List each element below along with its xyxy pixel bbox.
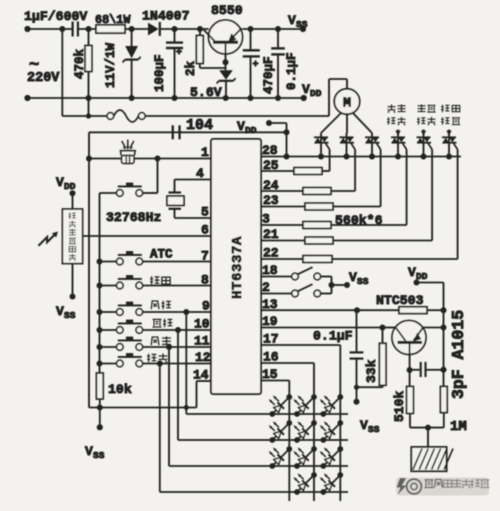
svg-text:510k: 510k	[392, 391, 407, 422]
wire from reset button up to pin1	[157, 159, 159, 194]
svg-text:8550: 8550	[211, 3, 243, 18]
label 辅助输出	[441, 105, 449, 113]
svg-text:10k: 10k	[108, 382, 132, 397]
wire gate of T2	[354, 150, 356, 192]
resistor 470k	[88, 29, 90, 46]
wire LED row3 riser	[168, 347, 170, 466]
wire pin 2 to switch	[261, 293, 292, 295]
switch S18	[292, 273, 299, 280]
wire LED row1 riser	[185, 312, 187, 414]
watermark	[396, 478, 489, 496]
capacitor 104	[172, 125, 174, 139]
svg-text:HT6337A: HT6337A	[230, 236, 246, 299]
IC U1 HT6337A body	[211, 139, 261, 394]
label 风速	[151, 301, 159, 309]
button aux	[100, 285, 117, 287]
wire 470k bottom to fuse line	[88, 98, 90, 116]
svg-text:SS: SS	[296, 19, 308, 30]
svg-text:560k*6: 560k*6	[335, 213, 383, 228]
wire VDD right feed	[417, 282, 444, 284]
node: AC input top terminal	[24, 26, 30, 32]
thermistor NTC503	[357, 309, 399, 311]
left button rail	[99, 193, 101, 373]
label 风类	[151, 337, 159, 345]
svg-text:SS: SS	[357, 276, 369, 287]
resistor 560k #5	[305, 237, 333, 244]
svg-text:NTC503: NTC503	[376, 293, 424, 308]
svg-text:ATC: ATC	[150, 248, 173, 262]
svg-text:V: V	[408, 265, 416, 280]
IR receiver module 红外线接收头	[72, 193, 74, 209]
IR signal arrow	[38, 235, 54, 246]
LED L8	[293, 446, 317, 469]
IR rays into LED	[122, 141, 126, 148]
resistor 560k #1	[294, 168, 322, 175]
svg-text:DD: DD	[310, 88, 322, 99]
capacitor 100uF	[174, 29, 176, 43]
wire R to D1	[125, 28, 148, 30]
wire resistor to gate vertical	[322, 170, 330, 172]
LED L6	[320, 420, 344, 443]
wire VDD to 104 line	[269, 122, 287, 124]
capacitor 0.1uF top	[277, 29, 279, 48]
wire pin6 from IR receiver	[83, 235, 211, 237]
svg-text:68\1W: 68\1W	[95, 13, 131, 27]
triac T4	[397, 137, 399, 157]
motor fan-out wires to triacs	[321, 113, 342, 134]
svg-text:0.1μF: 0.1μF	[313, 329, 353, 344]
wire gate of T6	[457, 150, 459, 260]
LED L11	[320, 472, 344, 495]
LED L4	[269, 420, 293, 443]
zener diode 11V/1W	[131, 29, 133, 46]
LED L2	[293, 394, 317, 417]
svg-text:220V: 220V	[27, 71, 60, 86]
wire aux to pin8	[143, 285, 211, 287]
LED L3	[320, 394, 344, 417]
button mode	[100, 346, 117, 348]
wire pin14 stub	[197, 380, 212, 382]
wire pin17 to LED column	[261, 344, 340, 346]
wire pin to resistor R5	[261, 240, 305, 242]
wire mode to pin11	[143, 346, 211, 348]
svg-text:V: V	[56, 175, 64, 190]
wire speed to pin9	[143, 311, 211, 313]
label 辅助	[150, 276, 159, 284]
wire resistor bottoms join	[410, 427, 444, 429]
button reset	[100, 192, 117, 194]
wire LED row2 riser	[177, 330, 179, 440]
node: 470uF top junction	[248, 26, 254, 32]
wire gate of T5	[431, 150, 433, 241]
node VSS left terminal	[70, 294, 76, 300]
switch S2	[292, 290, 299, 297]
triac T5	[423, 137, 425, 157]
svg-text:1M: 1M	[450, 419, 467, 435]
node: 470k bottom on neutral rail	[86, 95, 92, 101]
wire switch common	[331, 277, 333, 294]
wire switch to common	[321, 293, 332, 295]
fuse line	[62, 115, 107, 117]
wire D1 to transistor	[160, 28, 209, 30]
svg-text:V: V	[349, 270, 357, 285]
svg-text:470k: 470k	[73, 48, 87, 79]
wire C1 to R 68	[78, 28, 96, 30]
svg-text:2k: 2k	[184, 60, 198, 76]
wire 33k bottom to cap bottom	[357, 386, 383, 388]
wire output stub with arrow (T4)	[397, 130, 399, 138]
wire pin to resistor R6	[261, 258, 303, 260]
svg-text:+: +	[176, 48, 182, 59]
wire rail right of transistor	[242, 28, 303, 30]
wire timer to pin10	[143, 329, 211, 331]
svg-text:3pF A1015: 3pF A1015	[449, 310, 468, 399]
label 垂直摇头	[418, 104, 426, 111]
svg-text:28: 28	[262, 143, 278, 158]
motor loop wires	[328, 79, 330, 116]
wire drop from top rail to fuse line	[61, 29, 63, 116]
resistor 560k #6	[303, 256, 332, 263]
wire pin1 line	[89, 158, 122, 160]
svg-text:V: V	[85, 444, 93, 459]
label 定时	[152, 319, 161, 327]
wire to transducer	[427, 428, 429, 447]
svg-text:104: 104	[186, 117, 213, 134]
triac T6	[448, 137, 450, 157]
svg-text:SS: SS	[64, 310, 76, 321]
wire top rail to C1	[28, 28, 73, 30]
LED L1	[269, 394, 293, 417]
svg-text:SS: SS	[93, 450, 105, 461]
resistor 560k #2	[303, 188, 331, 195]
wire pin 18 to switch	[261, 276, 292, 278]
capacitor C1 1uF/600V	[71, 22, 73, 37]
wire LED row3	[169, 465, 348, 467]
fuse wavy element	[114, 110, 139, 122]
button timer	[100, 329, 117, 331]
svg-text:DD: DD	[245, 125, 257, 136]
svg-text:0.1μF: 0.1μF	[285, 52, 299, 90]
LED L5	[293, 420, 317, 443]
triac T1	[320, 133, 322, 157]
resistor 2k	[199, 29, 201, 36]
wire pin to resistor R3	[261, 206, 305, 208]
wire AC neutral rail y=98	[28, 97, 304, 99]
wire LED row1	[186, 413, 348, 415]
svg-text:DD: DD	[64, 181, 76, 192]
node: 0.1uF top junction	[275, 26, 281, 32]
node: AC input bottom terminal	[24, 95, 30, 101]
IR indicator LED D2	[120, 151, 135, 156]
wire VDD drop to pin28 rail	[286, 132, 288, 156]
wire pin13 to NTC junction	[261, 309, 357, 311]
wire gate of T4	[406, 150, 408, 226]
wire swing to pin12	[143, 363, 211, 365]
node: VDD terminal (neutral rail)	[301, 95, 307, 101]
button ATC	[100, 261, 117, 263]
wire bottom horizontal to pin14	[89, 407, 197, 409]
motor M	[334, 89, 359, 114]
svg-text:100μF: 100μF	[153, 54, 167, 92]
resistor 1M	[440, 386, 447, 412]
wire ATC to pin7	[143, 261, 211, 263]
capacitor 470uF	[250, 29, 252, 50]
wire pin15 to LED column	[261, 380, 289, 382]
wire resistor to gate vertical	[331, 224, 407, 226]
wire pin to resistor R4	[261, 224, 303, 226]
wire LED row2	[178, 439, 348, 441]
wire resistor to gate vertical	[333, 240, 432, 242]
wire output stub with arrow (T5)	[423, 130, 425, 138]
svg-text:V: V	[288, 13, 296, 28]
wire gate of T1	[329, 150, 331, 172]
wire resistor to gate vertical	[331, 190, 355, 192]
transducer (hatched)	[411, 447, 446, 471]
resistor 10k	[96, 373, 103, 399]
svg-text:M: M	[343, 97, 351, 112]
wire left vertical from 104 line	[88, 132, 90, 407]
capacitor 0.1uF (timing)	[356, 310, 358, 352]
label 水平摇头	[388, 104, 396, 112]
diode D1 1N4007	[148, 23, 159, 36]
node VDD mid terminal	[266, 120, 272, 126]
zener diode 5.6V	[219, 70, 233, 79]
wire switch to common	[321, 276, 332, 278]
wire pin28 rail	[261, 156, 461, 158]
wire pin to resistor R2	[261, 190, 303, 192]
triac T3	[371, 133, 373, 157]
crystal 32768Hz	[175, 179, 212, 181]
svg-text:V: V	[302, 82, 310, 97]
svg-text:32768Hz: 32768Hz	[106, 210, 161, 225]
svg-text:V: V	[360, 418, 368, 433]
wire pin16 to LED column	[261, 362, 314, 364]
resistor 560k #4	[303, 222, 331, 229]
svg-text:33k: 33k	[364, 359, 379, 383]
svg-text:470μF: 470μF	[262, 56, 276, 94]
wire resistor to gate vertical	[333, 206, 381, 208]
svg-text:11V/1W: 11V/1W	[104, 42, 118, 88]
wire LED row4	[160, 491, 348, 493]
wire pin19 to transistor base network	[261, 327, 383, 329]
node VSS bottom terminal	[97, 424, 103, 430]
node VSS timing terminal	[354, 399, 360, 405]
label 摇头	[147, 354, 156, 362]
button swing	[100, 363, 117, 365]
transistor Q2 A1015	[392, 321, 426, 355]
wire output stub with arrow (T6)	[448, 130, 450, 138]
capacitor 3pF	[410, 369, 420, 371]
triac T2	[346, 133, 348, 157]
LED L9	[320, 446, 344, 469]
svg-text:V: V	[56, 304, 64, 319]
resistor 33k	[382, 328, 384, 344]
node: 2k top junction	[197, 26, 203, 32]
svg-text:+: +	[253, 60, 259, 71]
node: 470k top junction	[86, 26, 92, 32]
button speed	[100, 311, 117, 313]
LED L7	[269, 446, 293, 469]
node: 100uF top junction	[172, 26, 178, 32]
resistor 510k	[407, 386, 414, 413]
wire gate of T3	[380, 150, 382, 207]
wire LED row4 riser	[159, 364, 161, 493]
node: zener 11V top junction	[129, 26, 135, 32]
node: VSS top terminal	[300, 26, 306, 32]
wire resistor to gate vertical	[332, 258, 458, 260]
wire 104 line	[89, 131, 287, 133]
resistor 68\1W	[96, 25, 125, 33]
svg-text:5.6V: 5.6V	[190, 85, 222, 100]
svg-text:1μF/600V: 1μF/600V	[24, 9, 87, 24]
LED L10	[293, 472, 317, 495]
svg-text:SS: SS	[368, 424, 380, 435]
node VSS switches terminal	[344, 282, 350, 288]
resistor 560k #3	[305, 203, 333, 210]
svg-text:1N4007: 1N4007	[142, 9, 190, 24]
wire pin to resistor R1	[261, 170, 294, 172]
